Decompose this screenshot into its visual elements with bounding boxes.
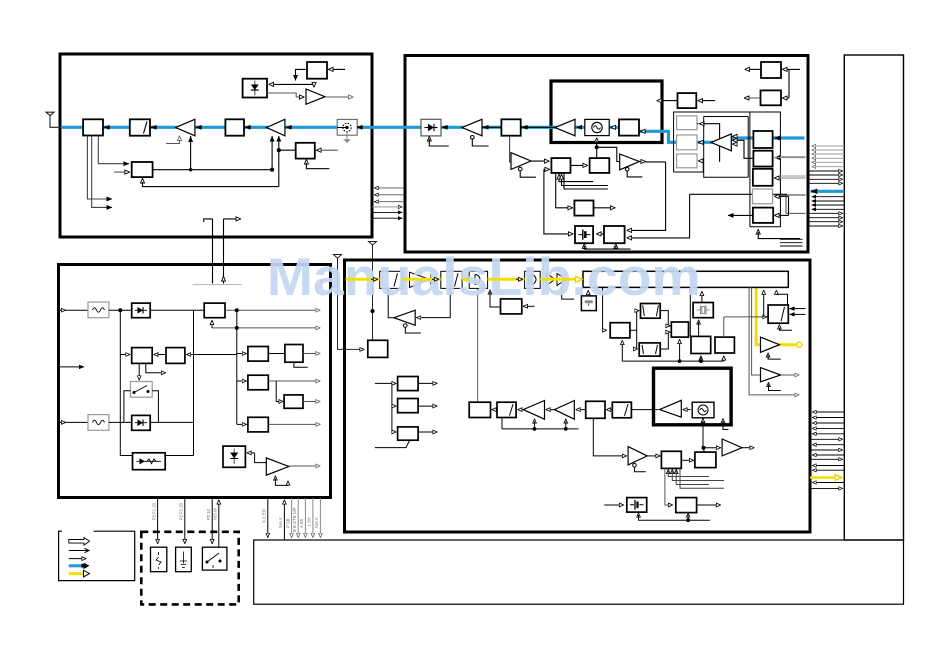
wire S tail bbox=[375, 441, 410, 448]
block AA bbox=[661, 451, 681, 468]
wire block D output bbox=[594, 207, 616, 209]
crystal block XT bbox=[693, 303, 713, 318]
wire J1 out to right bbox=[225, 309, 320, 311]
gray bus lines TR to connector bbox=[812, 146, 844, 167]
stubs into wide box bottom bbox=[764, 290, 788, 317]
wire bus line 5 bbox=[372, 211, 403, 213]
wire bus line 4 bbox=[372, 206, 402, 208]
detector diode block DET bbox=[243, 79, 267, 98]
wire down into A3 top bbox=[313, 84, 315, 87]
block AGC G bbox=[132, 162, 153, 177]
arrow into DET2 bbox=[247, 452, 255, 454]
arrow into N bbox=[516, 278, 523, 280]
wire R out bbox=[418, 405, 437, 407]
long gray vertical from chain to BT1 bbox=[477, 289, 479, 403]
svg-text:X C ED: X C ED bbox=[262, 509, 267, 523]
yellow arrow into wide box bbox=[576, 278, 582, 280]
block PA driver TRB3 bbox=[678, 93, 697, 108]
arrow into RS4 bbox=[775, 195, 789, 197]
arrow into A5 bbox=[577, 126, 583, 128]
A9 pot bbox=[275, 476, 288, 485]
arrow block C into CAP bbox=[597, 233, 605, 235]
A16 pot bbox=[768, 353, 781, 359]
top-left block enclosure bbox=[60, 54, 372, 237]
wire DET2 link to A9 bbox=[255, 453, 267, 463]
wire detector to A3 bbox=[267, 93, 297, 97]
arrow into G1 bbox=[697, 123, 705, 125]
arrow into L bbox=[432, 278, 439, 280]
wire audio line 2 bbox=[59, 421, 89, 423]
gray block G2 bbox=[677, 135, 697, 150]
buffer TK1 (points right) bbox=[410, 272, 431, 287]
legend box bbox=[59, 531, 135, 580]
wire wide-box to AF bbox=[603, 287, 607, 330]
wire wide-box to XT bbox=[701, 292, 703, 303]
wire vertical mid bbox=[193, 310, 195, 455]
block RS2 bbox=[753, 151, 772, 167]
wires AG AH converge to AI bbox=[660, 311, 670, 349]
wire A7 output bbox=[639, 161, 645, 163]
wire into CAP2 bbox=[604, 504, 623, 506]
arrow into A3 bbox=[296, 96, 304, 98]
block X bbox=[586, 401, 605, 418]
yellow branch down to mixer bbox=[756, 287, 797, 344]
chain arrows over yellow bbox=[371, 278, 523, 280]
wire A9 out bbox=[289, 465, 320, 467]
filter F2 (sine box) bbox=[88, 415, 109, 431]
op-amp A9 (points right) bbox=[266, 458, 289, 475]
wire down to opt2 bbox=[184, 498, 186, 544]
wire RD out bbox=[303, 401, 320, 403]
LL-CONTENTS bbox=[59, 302, 321, 485]
triple lines bottom right corner bbox=[780, 239, 803, 246]
BC-CONTENTS bbox=[334, 242, 806, 522]
op-amp A15 (points right) bbox=[722, 439, 742, 456]
U2 second stub bbox=[722, 419, 724, 422]
wire A6 output bbox=[531, 160, 549, 162]
lower bus line out bbox=[813, 444, 845, 446]
VD control stub bbox=[428, 137, 430, 140]
wire bus line 1 bbox=[375, 187, 405, 189]
arrow input PLL right bbox=[317, 149, 338, 151]
gray block G1 bbox=[677, 116, 697, 130]
svg-text:L IHI: L IHI bbox=[307, 517, 312, 526]
block AF bbox=[610, 323, 630, 338]
wire Q out bbox=[418, 382, 437, 384]
twin verticals from wide box bbox=[749, 287, 799, 395]
MAIN-RECTS bbox=[59, 54, 904, 604]
block RE bbox=[248, 417, 268, 432]
arrow into B5 (blue elbow end) bbox=[641, 130, 647, 132]
buffer TK2 bbox=[547, 274, 575, 300]
arrow into attenuator bbox=[151, 126, 157, 128]
wire bottoms of CAP and C bbox=[584, 244, 630, 249]
AL pot bbox=[779, 325, 792, 331]
arrow into A10 (from divider L bottom) bbox=[417, 288, 451, 317]
wire D2 right to bus bbox=[150, 421, 193, 423]
divider BT2 (slash) bbox=[497, 402, 516, 417]
block B (under OSC1) bbox=[590, 158, 610, 173]
right tall connector rect bbox=[844, 55, 903, 540]
block RS5 bbox=[753, 208, 773, 223]
arrow left-border input mid bbox=[59, 366, 85, 368]
wire long L to cap block bbox=[544, 169, 573, 234]
lower bus line into connector bbox=[810, 487, 843, 489]
wire right vertical into block C upper bbox=[627, 162, 666, 231]
A11 A12 pots bbox=[502, 418, 579, 431]
wide logic block bbox=[583, 271, 788, 287]
wire down to AD bbox=[665, 468, 673, 505]
wire TRB2 right bbox=[783, 97, 790, 99]
arrow into A12 bbox=[576, 409, 586, 411]
wire long to right border bbox=[690, 193, 787, 195]
wire PLL left bbox=[279, 149, 296, 151]
svg-text:P2 10: P2 10 bbox=[206, 508, 211, 520]
legend arrow 4 (blue) bbox=[69, 563, 90, 570]
wire TRB1 right bbox=[783, 68, 801, 70]
gray wires down to connector bbox=[292, 498, 321, 537]
dashed option block bbox=[141, 532, 238, 605]
RIGHT-BUNDLES bbox=[809, 146, 845, 488]
antenna ANT2 bbox=[334, 255, 365, 350]
wire block F right bbox=[165, 455, 193, 457]
arrow into RS3 bbox=[775, 177, 806, 179]
block TRB2 bbox=[761, 90, 782, 105]
op-amp A13 in U2 (points left) bbox=[660, 400, 682, 417]
phase block M bbox=[469, 271, 487, 288]
svg-text:P SB: P SB bbox=[285, 518, 290, 528]
oscillator OSC2 bbox=[692, 402, 714, 418]
yellow end dot bbox=[797, 342, 802, 347]
arrow into RX front-end bbox=[104, 126, 110, 128]
arrow into G2 bbox=[699, 141, 705, 143]
block AB bbox=[695, 452, 716, 468]
wire AK top to AL bbox=[724, 317, 767, 337]
divider AL (slash) bbox=[768, 305, 788, 323]
wire TRB3 right stub bbox=[698, 100, 715, 102]
arrow into A4 bbox=[483, 126, 489, 128]
arrow BT2 into BT1 bbox=[492, 409, 497, 411]
wire RA to RB bbox=[268, 353, 285, 355]
wire X bottom to A14 bbox=[593, 418, 626, 456]
antenna ANT1 bbox=[46, 112, 61, 127]
ground rail under counters bbox=[622, 287, 724, 362]
divider Y (slash) bbox=[607, 402, 632, 418]
svg-text:ManualsLib.com: ManualsLib.com bbox=[267, 248, 701, 307]
arrow into B4 bbox=[522, 126, 528, 128]
arrow bus into R bbox=[392, 405, 396, 407]
block RB bbox=[285, 345, 303, 363]
block RS3 bbox=[753, 169, 773, 186]
block J1 bbox=[204, 303, 225, 318]
block N bbox=[525, 271, 541, 288]
block RF amp A6 (points right) bbox=[511, 153, 531, 170]
INTER-RECT BUNDLE top (between TL and TR) bbox=[372, 188, 404, 218]
divider AG (slash) bbox=[641, 304, 661, 319]
op-amp A2 (points left) bbox=[267, 119, 285, 136]
bottom wide connector rect bbox=[254, 540, 904, 604]
wire AA to AB bbox=[681, 459, 693, 461]
wire RC out bbox=[268, 380, 320, 382]
wire line2 out to right bbox=[212, 327, 320, 329]
legend arrow 5 (yellow) bbox=[69, 570, 90, 577]
A10 pot bbox=[404, 324, 421, 333]
svg-text:B B GTE N/P: B B GTE N/P bbox=[292, 507, 297, 532]
wire G1 right bbox=[703, 124, 720, 162]
block RA bbox=[248, 347, 268, 362]
gray stubs inside right edge bbox=[780, 157, 806, 176]
OSC2 bottom wire bbox=[702, 419, 721, 453]
wire TRB1 left out bbox=[745, 68, 761, 70]
block B5 bbox=[619, 119, 639, 135]
lower-left block enclosure bbox=[59, 265, 331, 498]
node on line1 bbox=[235, 309, 238, 312]
arrow chain into divider K bbox=[371, 278, 378, 280]
legend arrow 1 (hollow wide) bbox=[69, 538, 90, 546]
arrow into A2 bbox=[286, 126, 292, 128]
lower bus line into connector bbox=[810, 449, 843, 451]
op-amp A17 (points right) bbox=[761, 368, 781, 382]
wire SW bypass right bbox=[152, 391, 158, 423]
block RX front-end bbox=[83, 119, 103, 135]
arrow into VD bbox=[442, 126, 448, 128]
svg-text:N/S W: N/S W bbox=[213, 508, 218, 520]
wire A15 out bbox=[742, 447, 754, 449]
BOTTOM-STRIP bbox=[69, 498, 321, 577]
block P bbox=[501, 299, 522, 314]
wire RB out bbox=[303, 353, 320, 355]
bus lines into connector bbox=[809, 171, 843, 183]
wire up from opt3 bbox=[218, 500, 220, 547]
wire D1 to J1 bbox=[150, 309, 204, 311]
bus lines into connector lower bbox=[809, 213, 843, 226]
block ref osc TB bbox=[307, 62, 327, 79]
lower bus line out bbox=[813, 454, 845, 456]
wire feed to QRS bus bbox=[375, 383, 392, 432]
blue bus arrow bbox=[811, 190, 816, 192]
wire up into J1 bottom bbox=[211, 321, 213, 328]
lower bus BC to connector bbox=[813, 412, 845, 434]
wires AL right bbox=[790, 309, 806, 315]
arrow bus into S bbox=[392, 431, 396, 433]
arrow A12 into A11 bbox=[546, 409, 554, 411]
wire into block F varistor bbox=[120, 355, 132, 456]
block RD bbox=[284, 395, 303, 408]
block T small bbox=[581, 291, 596, 311]
arrow into A1 bbox=[196, 126, 202, 128]
arrows into A8 right side bbox=[733, 136, 738, 144]
wire RS4 feed bbox=[788, 196, 790, 215]
switch block SW bbox=[131, 382, 153, 398]
wire audio line 1 bbox=[59, 309, 89, 311]
gain control stub A1 bbox=[166, 136, 180, 144]
wire A2 control legs bbox=[271, 136, 281, 187]
wire RC branch down to RD bbox=[276, 381, 283, 402]
block AJ bbox=[691, 336, 711, 353]
wire SW bypass left bbox=[124, 391, 131, 423]
node on ANT3 wire bbox=[371, 310, 374, 313]
wire D4 bottom pair bbox=[139, 363, 165, 379]
A4 control stub bbox=[471, 136, 475, 140]
lower bus line into connector bbox=[810, 438, 843, 440]
wire XT to AJ bbox=[698, 320, 700, 336]
wires under block RX front-end bbox=[87, 136, 129, 208]
wire AF to AG AH bbox=[630, 311, 639, 349]
arrow bus into RE bbox=[237, 423, 247, 425]
block BT1 bbox=[469, 402, 490, 417]
arrow into B3 bbox=[245, 126, 251, 128]
legend arrow 3 bbox=[69, 558, 86, 560]
bold sub-enclosure U2 bbox=[654, 368, 732, 425]
lower bus line out bbox=[813, 482, 845, 484]
wire up from conn bbox=[283, 500, 285, 540]
mixer amp A16 (points right, on yellow) bbox=[761, 337, 780, 352]
block S bbox=[398, 427, 419, 440]
wire down to opt1 bbox=[157, 498, 159, 544]
wire L near right border bbox=[780, 195, 806, 213]
block R bbox=[398, 399, 419, 413]
wire AGC bottom feedback bbox=[143, 179, 279, 187]
gray block G3 bbox=[677, 154, 697, 168]
pin labels (tiny) bbox=[151, 502, 319, 532]
antenna ANT3 bbox=[369, 242, 377, 341]
wire TRB3 left out bbox=[657, 100, 678, 102]
block D4 bbox=[132, 348, 153, 364]
wire AGC output to A2 leg bbox=[153, 169, 273, 171]
arrow into OSC1 bbox=[611, 126, 616, 128]
op-amp A3 (points right) bbox=[306, 89, 325, 104]
block attenuator (slash) bbox=[130, 119, 150, 135]
block I bbox=[368, 340, 388, 357]
wire from A7 right to vertical bbox=[646, 161, 666, 163]
block Q bbox=[398, 377, 419, 391]
wire vertical pair to lower block bbox=[193, 219, 242, 285]
arrow input AGC bbox=[114, 171, 130, 173]
TR-CONTENTS bbox=[421, 62, 806, 249]
arrow A11 into BT2 bbox=[518, 409, 523, 411]
wire Y to A13 bbox=[631, 409, 658, 411]
wire into G3 from below frame bbox=[702, 161, 704, 172]
wire below frame bbox=[757, 230, 759, 233]
block CAP2 (battery symbol) bbox=[627, 498, 647, 512]
block A (left of U1 lower) bbox=[551, 158, 570, 173]
wire TB right input bbox=[329, 68, 346, 70]
PLL control stub bbox=[305, 160, 307, 164]
wire bus-col into E bbox=[187, 354, 237, 356]
A14 pot bbox=[633, 464, 646, 472]
wire junction to detector bbox=[269, 83, 314, 85]
wire D4 left input bbox=[120, 310, 130, 354]
divider block K (slash) bbox=[380, 271, 403, 288]
wire bus line 3 bbox=[375, 201, 405, 203]
yellow clock line (gap segments) bbox=[346, 278, 576, 281]
svg-text:P2 F1 20: P2 F1 20 bbox=[151, 502, 156, 520]
limiter D1 bbox=[132, 303, 151, 318]
divider AH (slash) bbox=[639, 343, 660, 356]
TL-CONTENTS bbox=[46, 62, 363, 285]
wire F1 to D1 bbox=[109, 309, 132, 311]
arrow into RS2 bbox=[775, 157, 781, 159]
option block opt1 bbox=[151, 547, 167, 572]
block RC bbox=[248, 375, 268, 390]
wire bus line 2 bbox=[375, 194, 405, 196]
wire blue segment bbox=[731, 136, 805, 139]
arrow OSC2 into A13 bbox=[683, 409, 691, 411]
wire blue into right connector bbox=[811, 190, 845, 193]
lower bus line into connector bbox=[810, 458, 843, 460]
wire A1 bottom to node bbox=[190, 136, 192, 170]
op-amp A11 (points left) bbox=[523, 401, 544, 420]
arrow E to D4 bbox=[154, 354, 166, 356]
wire S out bbox=[418, 431, 437, 433]
wire A14 to AA bbox=[647, 455, 660, 457]
wire down to conn1 bbox=[267, 498, 269, 537]
wire A8 to RS2 bbox=[737, 140, 754, 158]
svg-text:A SS: A SS bbox=[299, 518, 304, 528]
block TRB1 top right bbox=[761, 62, 781, 78]
thin frame around switch matrix bbox=[674, 112, 781, 227]
top-right block enclosure bbox=[405, 56, 808, 253]
gray block RS4 bbox=[753, 189, 773, 204]
filter F1 (sine box) bbox=[88, 302, 109, 318]
arrow blue into RS1 bbox=[775, 137, 781, 139]
wire right into block C lower bbox=[627, 194, 690, 238]
block RS1 bbox=[753, 131, 772, 148]
op-amp A12 (points left) bbox=[554, 401, 574, 420]
A6 pot bbox=[518, 167, 536, 177]
arrow into M1 bbox=[357, 126, 363, 128]
bus lines out of connector (left arrows) bbox=[812, 197, 845, 210]
wire black core over blue bbox=[482, 126, 555, 128]
wire blue elbow bbox=[639, 131, 713, 142]
bottom-center block enclosure bbox=[345, 260, 811, 532]
option block opt3 (switch) bbox=[202, 547, 227, 570]
op-amp A14 (points right) bbox=[628, 447, 647, 465]
BLUE-MAIN-SIGNAL-PATH bbox=[61, 127, 844, 191]
wire RE out bbox=[268, 423, 320, 425]
block AI bbox=[671, 322, 688, 337]
gray wire into RS2 bbox=[774, 157, 806, 159]
svg-text:N/A V: N/A V bbox=[314, 517, 319, 528]
op-amp A8 (points left) bbox=[711, 134, 731, 151]
yellow bus line into connector bbox=[810, 476, 842, 479]
block varactor-diode VD bbox=[421, 119, 441, 136]
bottoms of CAP2 and AD bbox=[639, 513, 710, 522]
watermark ManualsLib.com bbox=[267, 248, 701, 307]
wire A3 output bbox=[326, 96, 353, 98]
bold sub-enclosure U1 bbox=[551, 81, 662, 143]
OSC1 bottom wire bbox=[595, 138, 619, 162]
block B4 bbox=[501, 119, 520, 135]
A17 pot bbox=[769, 383, 781, 391]
wire distribution bus bbox=[236, 310, 238, 424]
wire B4 bottom to A5 bbox=[510, 136, 512, 162]
oscillator OSC1 bbox=[585, 119, 609, 135]
arrow into P right bbox=[523, 305, 534, 307]
block AK bbox=[715, 337, 734, 353]
legend arrow 2 bbox=[69, 550, 89, 552]
wires under block A (3 stubs) bbox=[559, 173, 608, 189]
wire TB left down bbox=[296, 69, 308, 80]
arrow bus into RA bbox=[237, 353, 247, 355]
wire RB bottom L bbox=[294, 362, 308, 367]
wire down to opt3 bbox=[211, 498, 213, 544]
wire blue RF main line bbox=[61, 126, 639, 129]
block M bottom pot bbox=[490, 290, 501, 307]
detector diode block DET2 bbox=[223, 446, 245, 467]
lower bus lines out bbox=[813, 466, 845, 471]
wire bus line 6 bbox=[372, 217, 403, 219]
